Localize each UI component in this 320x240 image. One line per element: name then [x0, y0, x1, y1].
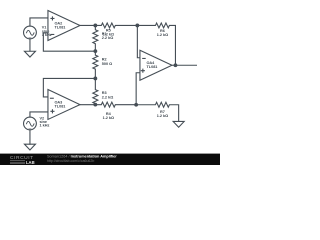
svg-text:LAB: LAB [26, 160, 35, 165]
svg-text:1.2 kΩ: 1.2 kΩ [157, 114, 169, 118]
svg-text:2.2 kΩ: 2.2 kΩ [102, 36, 114, 40]
svg-text:1 kHz: 1 kHz [39, 124, 49, 128]
svg-text:http://circuitlab.com/c/ca6u62: http://circuitlab.com/c/ca6u62b [47, 159, 94, 163]
svg-text:1 kHz: 1 kHz [42, 33, 52, 37]
svg-text:2.2 kΩ: 2.2 kΩ [102, 95, 114, 99]
svg-text:TL081: TL081 [54, 26, 65, 30]
svg-text:1.2 kΩ: 1.2 kΩ [157, 33, 169, 37]
svg-text:TL081: TL081 [54, 105, 65, 109]
svg-text:R2: R2 [102, 57, 107, 61]
svg-text:1.2 kΩ: 1.2 kΩ [103, 116, 115, 120]
svg-text:TL081: TL081 [146, 65, 157, 69]
svg-text:R3: R3 [102, 91, 107, 95]
svg-text:500 Ω: 500 Ω [102, 62, 112, 66]
